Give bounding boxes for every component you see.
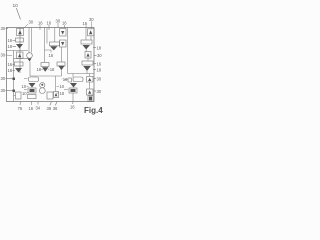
wire dash	[64, 79, 68, 81]
nozzle (filled)	[29, 83, 36, 88]
svg-text:30: 30	[97, 53, 102, 58]
svg-text:10: 10	[60, 84, 65, 89]
wire leader 34	[37, 102, 39, 105]
svg-text:16: 16	[97, 62, 102, 67]
svg-text:30: 30	[89, 17, 94, 22]
restrictor 16 mid B	[57, 62, 65, 66]
wire dash 30	[6, 78, 14, 80]
tank rect	[28, 95, 37, 99]
svg-text:10: 10	[22, 91, 27, 96]
wire dash 18	[93, 47, 96, 49]
wire v6 top	[54, 28, 56, 43]
svg-text:10: 10	[22, 84, 27, 89]
wire v3 down to stack	[29, 62, 31, 77]
wire leader 36	[55, 102, 57, 106]
wire h1	[7, 50, 29, 52]
solenoid rounded rect	[29, 77, 39, 82]
valve 30 right-top	[88, 29, 95, 36]
valve 30 right-mid	[85, 52, 91, 59]
wire tick under 30	[57, 23, 59, 28]
svg-text:18: 18	[97, 46, 102, 51]
pump dot	[41, 84, 43, 86]
svg-text:16: 16	[47, 21, 52, 26]
restrictor 16 mid A	[41, 63, 49, 67]
valve dark	[28, 88, 36, 93]
wire pair v3a	[28, 28, 30, 53]
wire tick under 16	[48, 25, 50, 30]
nozzle (filled)	[70, 83, 77, 88]
wire dash	[48, 68, 50, 70]
wire dash	[24, 78, 28, 80]
wire tick under 16	[39, 25, 41, 30]
svg-text:76: 76	[18, 106, 23, 111]
valve 30 left-top	[17, 29, 24, 36]
tank 76 bottom-left	[16, 92, 22, 99]
svg-text:38: 38	[47, 106, 52, 111]
wire h3	[68, 73, 95, 75]
wire dash 10	[27, 92, 29, 94]
wire left column vertical	[19, 28, 21, 74]
svg-text:16: 16	[38, 21, 43, 26]
nozzle 18 left lower (filled)	[15, 68, 22, 73]
wire v11	[85, 28, 87, 41]
restrictor 16 upper-mid	[50, 42, 60, 46]
wire B down	[60, 70, 62, 76]
svg-text:18: 18	[8, 44, 13, 49]
valve 30 center-top	[60, 29, 67, 37]
svg-text:10: 10	[13, 3, 19, 9]
wire v6 lower	[55, 76, 57, 92]
wire h2	[14, 58, 29, 60]
wire v7	[61, 47, 63, 62]
svg-text:30: 30	[1, 76, 6, 81]
nozzle 18 left (filled)	[16, 44, 23, 49]
svg-text:16: 16	[8, 62, 13, 67]
wire dash	[61, 78, 64, 80]
wire stub	[14, 95, 16, 97]
wire leader from 10	[16, 8, 20, 20]
nozzle 18 mid B (filled)	[58, 66, 64, 71]
svg-text:30: 30	[1, 26, 6, 31]
svg-text:18: 18	[60, 91, 65, 96]
restrictor 16 left lower	[15, 62, 24, 66]
wire leader 16	[72, 102, 74, 105]
nozzle below circle (filled)	[28, 59, 32, 62]
wire dash	[57, 85, 60, 87]
wire dash 30	[94, 55, 97, 57]
svg-text:30: 30	[97, 77, 102, 82]
wire down	[72, 93, 74, 102]
wire h4	[30, 75, 62, 77]
wire dash 30	[94, 90, 97, 92]
svg-text:Fig.4: Fig.4	[84, 106, 103, 115]
wire tick under 16	[64, 25, 66, 28]
svg-text:16: 16	[83, 21, 88, 26]
svg-text:30: 30	[1, 88, 6, 93]
wire v12	[89, 74, 91, 77]
wire dash 18	[93, 69, 96, 71]
wire tick under 30	[91, 22, 93, 29]
svg-text:18: 18	[37, 67, 42, 72]
wire dash	[41, 68, 43, 70]
wire v10	[72, 74, 74, 78]
svg-text:18: 18	[50, 67, 55, 72]
svg-text:16: 16	[49, 53, 54, 58]
pump 34 (two circles)	[40, 83, 45, 88]
wire v9	[67, 28, 69, 74]
valve right-bottom corner	[88, 96, 93, 102]
solenoid rounded rect	[73, 77, 83, 82]
wire dash 30	[94, 78, 97, 80]
restrictor 16 right-upper	[81, 40, 92, 44]
wire tick under 16	[85, 25, 87, 27]
valve 30 left-mid	[17, 52, 24, 59]
wire dash	[57, 92, 60, 94]
valve dark	[69, 88, 77, 93]
svg-text:34: 34	[36, 106, 41, 111]
wire dash 18	[13, 70, 16, 72]
svg-text:16: 16	[70, 105, 75, 110]
wire	[85, 50, 87, 52]
valve 18 center-bottom (dark)	[54, 92, 59, 98]
svg-text:18: 18	[97, 68, 102, 73]
valve 30 right-4	[87, 89, 94, 95]
wire dash 10	[27, 86, 29, 88]
wire pair v3b	[31, 28, 33, 53]
wire dash	[64, 89, 68, 91]
wire leader 16	[31, 102, 33, 106]
wire dash 30	[6, 54, 13, 57]
wire dash 18	[13, 46, 17, 48]
junction	[13, 78, 16, 81]
valve 30 center-second	[60, 40, 67, 47]
wire left inner vertical	[13, 51, 15, 102]
wire leader 76	[19, 102, 22, 106]
valve 30 right-3	[87, 77, 94, 83]
wire dash 30	[6, 90, 14, 92]
wire pair v4a	[44, 28, 46, 63]
svg-text:30: 30	[29, 20, 34, 25]
svg-text:36: 36	[53, 106, 58, 111]
wire leader 30 to valve	[24, 24, 29, 29]
tank 36 center	[47, 92, 53, 99]
wire dash 30	[6, 28, 9, 30]
svg-text:18: 18	[8, 68, 13, 73]
restrictor 16 left	[16, 38, 24, 42]
wire	[89, 82, 91, 89]
svg-text:30: 30	[97, 89, 102, 94]
nozzle 18 right-upper (filled)	[83, 45, 91, 50]
wire dash 16	[13, 64, 15, 66]
wire L-branch	[45, 50, 52, 53]
svg-text:16: 16	[29, 106, 34, 111]
junction	[13, 90, 16, 93]
check valve circle 30 mid-left	[27, 53, 33, 59]
wire	[87, 58, 89, 61]
svg-text:30: 30	[1, 53, 6, 58]
svg-text:30: 30	[56, 19, 61, 24]
restrictor 16 right-lower	[82, 61, 93, 65]
small poly	[68, 78, 72, 82]
wire	[86, 71, 88, 74]
wire pair v4b	[46, 28, 48, 44]
wire	[90, 36, 92, 40]
nozzle 18 right-lower (filled)	[83, 66, 91, 71]
wire leader 38	[50, 102, 52, 106]
nozzle 18 upper-mid (filled)	[50, 46, 58, 50]
svg-text:16: 16	[62, 21, 67, 26]
wire dash 16	[94, 63, 97, 65]
wire dash	[24, 89, 27, 91]
svg-text:16: 16	[8, 38, 13, 43]
wire dash 16	[13, 40, 16, 42]
outer housing box	[7, 28, 95, 102]
nozzle 18 mid A (filled)	[42, 67, 49, 72]
